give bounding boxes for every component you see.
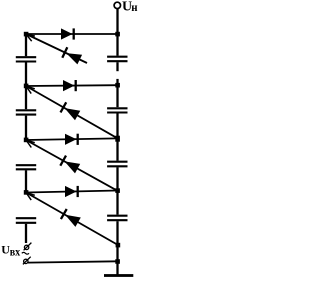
node: bottom wire junction dot bbox=[115, 259, 120, 264]
wire: left bus C7 down to input terminal bbox=[25, 224, 27, 243]
svg-text:вх: вх bbox=[10, 245, 21, 259]
wire: right bus from terminal to node R1 bbox=[116, 8, 118, 34]
wire: stage3 horizontal, L3 to R3 bbox=[26, 138, 118, 140]
AC tilde mark bbox=[22, 252, 29, 254]
wire: right bus R1 down to capacitor C2 bbox=[116, 34, 118, 56]
wire: left bus C5 to L4 bbox=[25, 170, 27, 192]
node L1 junction dot bbox=[24, 32, 29, 37]
input terminal 1 (circle with slash) bbox=[24, 245, 28, 249]
capacitor C2 (right column, stage1) bbox=[107, 56, 127, 58]
diode VD1 (stage1 horizontal) bbox=[61, 28, 73, 39]
capacitor C3 (left column, stage2) bbox=[25, 86, 27, 109]
wire: right bus R2 down through C4 to R3 bbox=[116, 114, 118, 161]
capacitor C7 (left column, stage4) bbox=[16, 217, 36, 219]
node: diag4 junction dot bbox=[116, 243, 121, 248]
capacitor C4 (right column, stage2) bbox=[107, 107, 127, 109]
capacitor C6 (right column, stage3) bbox=[107, 161, 127, 163]
node R2 junction dot bbox=[115, 83, 120, 88]
diode VD7 (stage4 horizontal) bbox=[65, 186, 77, 197]
diode VD6 on stage3 diagonal, L3 to R4 bbox=[26, 140, 118, 191]
capacitor C5 (left column, stage3) bbox=[16, 164, 36, 166]
output terminal circle bbox=[114, 2, 120, 8]
wire: left bus L1 down to capacitor C1 bbox=[25, 34, 27, 56]
wire: right bus C6 to R4 bbox=[116, 167, 118, 214]
node R3 junction dot bbox=[115, 136, 120, 142]
node R1 junction dot bbox=[115, 32, 120, 37]
wire: right bus resumes to R2 bbox=[116, 79, 118, 107]
wire: left bus C3 to L3 bbox=[25, 116, 27, 140]
wire: left bus C1 to L2 bbox=[25, 63, 27, 87]
diode VD3 (stage2 horizontal) bbox=[63, 80, 75, 91]
ground bar bbox=[104, 274, 133, 277]
node L4 junction dot bbox=[24, 190, 29, 195]
wire: stage4 horizontal, L4 to R4 bbox=[26, 191, 118, 193]
node L3 junction dot bbox=[24, 138, 29, 143]
input terminal 2 (circle with slash) bbox=[24, 259, 28, 263]
diode VD8 on stage4 diagonal, L4 to lower right bus node bbox=[26, 193, 118, 246]
svg-text:н: н bbox=[131, 0, 137, 14]
wire: right bus C8 down to ground bbox=[116, 221, 118, 274]
wire: bottom return, input terminal to right bus bbox=[28, 261, 118, 262]
capacitor C1 (left column, stage1) bbox=[16, 56, 36, 58]
node R4 junction dot bbox=[115, 188, 120, 193]
diode VD4 on stage2 diagonal, L2 to R3 bbox=[26, 86, 118, 138]
diode VD5 (stage3 horizontal) bbox=[65, 134, 77, 145]
wire: stage2 horizontal, L2 to R2 bbox=[26, 84, 118, 87]
wire: stage1 horizontal, L1 to R1 bbox=[26, 33, 118, 35]
capacitor C8 (right column, stage4) bbox=[107, 215, 127, 217]
wire: stub below C2 (print break in scan) bbox=[116, 62, 118, 71]
node L2 junction dot bbox=[24, 84, 29, 89]
diode VD2 on stage1 diagonal (wire ends mid-air as in scan) bbox=[26, 34, 87, 63]
